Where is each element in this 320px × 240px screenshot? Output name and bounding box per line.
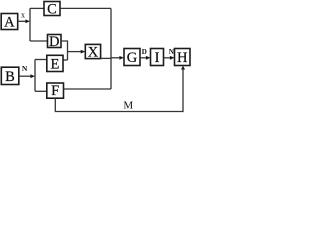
svg-text:N: N [22,64,28,73]
arrowhead into junction from B [30,74,35,78]
box C [44,1,60,17]
svg-text:C: C [47,1,57,17]
wire junction vertical from A [29,8,31,41]
wire F down to M line [55,69,183,111]
svg-text:H: H [177,50,188,66]
svg-text:G: G [127,50,138,66]
svg-text:x: x [21,11,25,20]
wire X out [101,57,111,59]
box G [124,49,140,67]
svg-text:A: A [4,14,15,30]
wire A out [18,20,28,22]
wire C out [60,7,111,9]
box B [1,67,19,85]
wire merge vertical right [110,8,112,89]
wire into C [30,7,44,9]
arrowhead into H [170,56,175,60]
box E [47,55,63,72]
wire junction vertical from B [34,60,36,92]
svg-text:X: X [88,44,99,60]
svg-text:N: N [169,48,174,56]
box X [85,44,100,60]
wire into E [35,59,47,61]
arrowhead into I [146,56,151,60]
arrowhead into G [119,56,124,60]
arrowhead into junction from A [25,19,30,23]
svg-text:D: D [142,48,147,56]
box A [1,14,18,31]
svg-text:E: E [50,56,59,72]
svg-text:B: B [5,69,15,85]
svg-text:F: F [51,83,59,99]
arrowhead up into H bottom [181,66,185,70]
wire into F [35,90,47,92]
arrowhead into X [81,50,86,54]
svg-text:D: D [49,34,59,50]
box H [175,49,191,67]
svg-text:M: M [123,99,133,111]
svg-text:I: I [155,50,160,66]
wire I to H [164,57,173,59]
wire D out [61,41,68,60]
wire B out [19,75,33,77]
box D [48,34,62,50]
wire F out [64,88,112,90]
wire G to I [140,57,148,59]
wire into X [68,51,83,53]
wire into G [111,57,122,59]
box F [47,83,64,99]
box I [151,49,164,67]
wire into D [30,40,48,42]
wire E out [63,59,68,61]
